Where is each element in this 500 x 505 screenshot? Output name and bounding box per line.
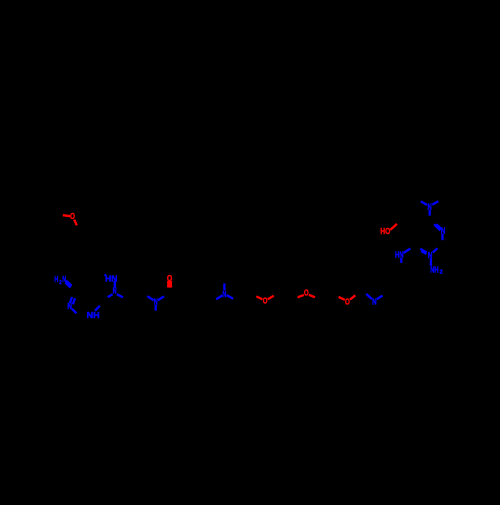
svg-text:H: H [54,275,58,284]
hydrazone C=N double half bond [420,249,427,253]
pyrimidine C=N double half bond [434,224,440,230]
amide N-C(O) half bond [158,296,164,300]
ether O1 C-O half bond left [256,296,262,299]
ring N-C half bond [72,309,77,314]
svg-text:2: 2 [440,270,443,276]
pyrimidine N-C half bond down [441,234,443,240]
junction N-CH2 half bond right [117,294,123,297]
carbonyl C=O double half bond [167,281,172,288]
amide C-N half bond left [147,296,153,300]
ether O2 O-C half bond right [309,295,315,298]
junction N-C half bond left [108,294,113,297]
N-N bond [114,281,116,288]
ether O1 O-C half bond right [268,296,274,299]
methylamino N-CH3 half bond down [400,258,402,263]
methylamino N-C half bond up-right [404,249,411,253]
amide N-CH3 half bond [155,305,157,311]
PEG N-C half bond right [377,296,383,300]
hydrazine N-N bond [430,258,432,266]
ether O2 O-C half bond left [298,295,304,297]
svg-text:HO: HO [380,227,391,236]
phenol O-C half bond [390,224,397,230]
svg-text:N: N [372,298,377,307]
ether O3 O-C half bond right [350,295,356,299]
ring NH-C half bond [95,306,100,311]
chain N-CH2 half bond right [227,295,234,299]
methoxy O-Ar half bond [74,220,77,226]
dimethylamino N-CH3 half bond right [432,201,438,205]
dimethylamino N-C half bond down [429,210,431,216]
PEG N C-N half bond left [366,294,372,299]
svg-text:O: O [263,297,268,306]
svg-text:NH: NH [430,265,438,274]
hydrazone N-C half bond right [433,248,438,252]
svg-text:N: N [222,290,226,299]
svg-text:NH: NH [87,311,100,320]
svg-text:N: N [113,287,117,296]
amine N=C double half bond [66,281,71,286]
svg-text:N: N [67,302,72,311]
methoxy C-O half bond [63,215,71,216]
ring HN label [104,274,106,276]
svg-text:O: O [304,288,309,297]
chain N-CH2 half bond left [216,295,222,299]
ring C=N double half bond [70,297,72,303]
chain N-CH3 half bond up [223,283,225,290]
dimethylamino N-CH3 half bond left [421,201,427,205]
ether O3 C-O half bond left [339,297,345,300]
